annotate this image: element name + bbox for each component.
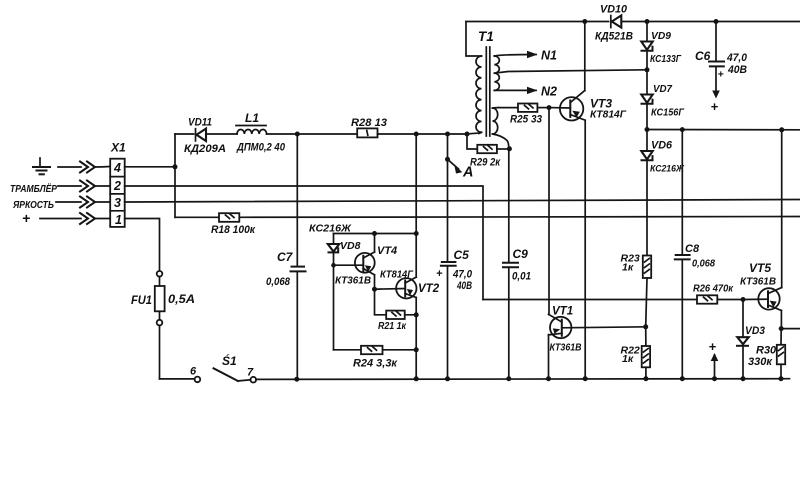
resistor R26 <box>697 295 743 303</box>
svg-text:С9: С9 <box>513 247 529 261</box>
svg-text:R29 2к: R29 2к <box>470 157 501 169</box>
wire N2 arrow <box>494 87 537 94</box>
wire main line seg <box>416 133 447 135</box>
node main-C5 junction <box>445 132 450 137</box>
svg-text:КТ361В: КТ361В <box>335 276 371 287</box>
svg-text:+: + <box>711 99 719 114</box>
wire y130 line <box>647 129 800 131</box>
fuse FU1 <box>155 271 165 379</box>
node rail-C8 <box>680 376 685 381</box>
wire main line seg2 <box>448 133 468 135</box>
node VD7-rightline <box>645 127 650 132</box>
wire N-tap long line <box>494 70 647 73</box>
wire input pin2 <box>58 185 110 187</box>
zener VD6 <box>641 130 652 256</box>
svg-text:+: + <box>436 268 443 280</box>
wire input pin3 <box>56 201 110 203</box>
svg-text:+: + <box>718 69 724 81</box>
svg-text:6: 6 <box>190 366 197 378</box>
input arrow chevrons pin1 <box>80 213 95 224</box>
wire vertical pin4 riser <box>174 134 176 217</box>
transformer T1 core <box>486 47 490 136</box>
node rail-VD3 <box>741 376 746 381</box>
node rail-C5 <box>445 376 450 381</box>
svg-text:+: + <box>22 210 30 226</box>
transformer T1 primary winding <box>466 22 482 134</box>
svg-text:Х1: Х1 <box>110 141 126 155</box>
svg-text:С7: С7 <box>277 250 294 264</box>
svg-text:КТ361В: КТ361В <box>550 342 582 354</box>
node VD8-VT4base <box>331 263 336 268</box>
svg-text:ЯРКОСТЬ: ЯРКОСТЬ <box>12 199 54 211</box>
svg-text:С6: С6 <box>695 49 711 63</box>
svg-text:КС216Ж: КС216Ж <box>309 224 352 235</box>
svg-text:КТ814Г: КТ814Г <box>380 269 413 281</box>
wire pin1 to fuse <box>125 219 160 272</box>
diode VD10 <box>611 15 622 27</box>
connector X1 <box>110 159 125 227</box>
transistor VT1 <box>549 314 646 378</box>
svg-text:0,068: 0,068 <box>692 258 715 270</box>
node rail-VT1emit <box>546 376 551 381</box>
node main-R29 junction <box>465 132 470 137</box>
node R25-VT3base <box>547 105 552 110</box>
wire N1 arrow <box>494 51 537 58</box>
svg-text:R28 13: R28 13 <box>351 117 387 129</box>
node R26-VD3-VT5 <box>741 297 746 302</box>
capacitor C9 <box>503 149 518 379</box>
node rail-C9 <box>506 376 511 381</box>
diode VD11 <box>196 129 238 141</box>
svg-text:R24 3,3к: R24 3,3к <box>353 358 398 370</box>
node toprail-VT3col <box>582 19 587 24</box>
transformer T1 lower secondary winding <box>493 108 509 149</box>
resistor R29 <box>477 145 509 153</box>
zener VD8 <box>328 234 339 350</box>
node VT1base-R22R23 <box>643 324 648 329</box>
resistor R21 <box>386 311 405 319</box>
svg-text:0,068: 0,068 <box>266 276 291 288</box>
input arrow chevrons pin2 <box>80 181 95 192</box>
svg-text:КД209А: КД209А <box>184 143 226 155</box>
wire bus C (R18 line) <box>175 216 800 219</box>
wire input pin1 <box>40 218 110 220</box>
svg-text:КС156Г: КС156Г <box>651 108 685 119</box>
wire bus A (pin2) <box>125 186 483 300</box>
svg-text:R21 1к: R21 1к <box>378 320 407 332</box>
svg-text:КД521В: КД521В <box>595 31 633 43</box>
wire bottom rail <box>256 378 789 381</box>
wire x416 vertical upper <box>415 134 417 277</box>
zener VD7 <box>641 70 652 130</box>
wire input pin4 <box>58 166 110 169</box>
node rail-VT3emit <box>583 376 588 381</box>
svg-text:VD11: VD11 <box>188 117 212 129</box>
node VT5emit-out <box>779 326 784 331</box>
wire VT3 emitter drop <box>584 120 586 379</box>
node rail-C7 <box>294 377 299 382</box>
wire VT1 collector riser <box>548 108 550 315</box>
capacitor C6 <box>709 22 724 99</box>
svg-text:ТРАМБЛЁР: ТРАМБЛЁР <box>10 182 58 195</box>
svg-text:47,0: 47,0 <box>452 269 473 281</box>
inductor L1 <box>236 126 297 135</box>
svg-text:Ś1: Ś1 <box>222 353 237 368</box>
svg-text:КТ361В: КТ361В <box>740 276 776 288</box>
node R21-x416 <box>414 312 419 317</box>
svg-text:VD6: VD6 <box>651 140 673 152</box>
node A junction <box>445 157 450 162</box>
svg-text:КС133Г: КС133Г <box>650 54 682 65</box>
node rail-terminal <box>712 376 717 381</box>
node toprail-VD9 <box>645 19 650 24</box>
svg-text:VT2: VT2 <box>418 283 440 295</box>
svg-text:40В: 40В <box>727 64 747 76</box>
svg-text:N2: N2 <box>541 85 557 99</box>
wire main line to primary <box>467 133 479 134</box>
wire emitter out line <box>781 328 800 330</box>
svg-text:VT1: VT1 <box>552 306 573 318</box>
resistor R18 <box>219 213 239 222</box>
transistor VT5 <box>743 288 782 311</box>
resistor R30 <box>777 329 785 379</box>
svg-text:330к: 330к <box>748 356 773 368</box>
wire bottom rail left <box>160 378 195 380</box>
node main-VT2col junction <box>414 132 419 137</box>
capacitor C8 <box>675 130 690 379</box>
svg-text:С5: С5 <box>454 248 470 262</box>
svg-text:FU1: FU1 <box>131 295 152 307</box>
node main-C7 junction <box>295 132 300 137</box>
wire R29 left leg <box>467 134 477 149</box>
wire VT5 emitter drop <box>780 311 782 329</box>
svg-text:4: 4 <box>113 161 121 175</box>
resistor R22 <box>642 327 650 379</box>
svg-text:VD3: VD3 <box>745 325 765 337</box>
svg-text:0,5А: 0,5А <box>168 294 195 306</box>
node VD9-Ntap <box>645 67 650 72</box>
input arrow chevrons pin3 <box>80 197 95 208</box>
svg-text:КТ814Г: КТ814Г <box>590 109 627 121</box>
svg-text:VD7: VD7 <box>653 83 673 95</box>
node R29-N2 junction <box>507 146 512 151</box>
switch S1 <box>195 368 257 382</box>
svg-text:7: 7 <box>247 367 254 379</box>
node VT4emit-VT2base <box>372 287 377 292</box>
svg-text:L1: L1 <box>245 111 259 125</box>
wire VD8 top line <box>334 233 417 235</box>
node rail-x416 <box>414 376 419 381</box>
svg-text:40В: 40В <box>456 280 472 292</box>
svg-text:ДПМ0,2 40: ДПМ0,2 40 <box>236 142 285 154</box>
wire main line left <box>175 133 194 135</box>
svg-text:R30: R30 <box>756 345 777 357</box>
svg-text:3: 3 <box>114 196 121 210</box>
zener VD9 <box>641 22 652 70</box>
transformer T1 secondary N1-N2 winding <box>494 56 499 90</box>
svg-text:47,0: 47,0 <box>726 52 748 64</box>
capacitor C7 <box>291 134 306 379</box>
svg-text:КС216Ж: КС216Ж <box>650 164 685 175</box>
svg-text:VT4: VT4 <box>377 245 397 257</box>
wire y300 line (bus A continuation) <box>483 299 697 301</box>
svg-text:Т1: Т1 <box>478 29 494 44</box>
svg-text:R26 470к: R26 470к <box>693 283 734 295</box>
wire x416 vertical lower <box>415 298 417 379</box>
svg-text:0,01: 0,01 <box>512 271 531 283</box>
ground <box>33 158 50 174</box>
svg-text:1к: 1к <box>622 262 634 274</box>
wire R24 row <box>334 349 417 351</box>
svg-text:С8: С8 <box>685 243 700 255</box>
transistor VT3 <box>549 91 585 121</box>
resistor R28 <box>357 128 416 137</box>
transistor VT4 <box>334 234 375 290</box>
capacitor C5 <box>441 134 456 379</box>
svg-text:VD10: VD10 <box>600 4 628 16</box>
svg-text:VT5: VT5 <box>749 261 771 275</box>
svg-text:2: 2 <box>113 179 121 193</box>
node A arrow <box>448 159 459 169</box>
transistor VT2 <box>375 277 417 298</box>
resistor R24 <box>361 346 383 354</box>
wire VT5 collector riser <box>781 130 783 288</box>
node rail-R30 <box>779 376 784 381</box>
wire pin4 to junction <box>125 166 175 168</box>
resistor R23 <box>643 256 651 327</box>
svg-text:VD8: VD8 <box>340 240 361 252</box>
node y130-C8 <box>680 127 685 132</box>
wire VT3 collector riser <box>584 22 586 91</box>
wire top rail <box>466 21 800 23</box>
node VD8line-x416 <box>414 231 419 236</box>
svg-text:VD9: VD9 <box>651 30 671 42</box>
diode VD3 <box>737 300 749 379</box>
node y130-VT5col <box>779 127 784 132</box>
svg-text:R18 100к: R18 100к <box>211 224 256 236</box>
svg-text:R25 33: R25 33 <box>510 114 542 126</box>
node toprail-C6 <box>714 19 719 24</box>
resistor R25 <box>499 104 550 112</box>
node VD8line-VT4col <box>372 231 377 236</box>
wire main line to R28 <box>297 133 357 135</box>
node R24-x416 <box>414 347 419 352</box>
svg-text:1: 1 <box>115 213 122 227</box>
svg-text:N1: N1 <box>541 49 557 63</box>
node pin4 junction <box>173 164 178 169</box>
svg-text:1к: 1к <box>622 353 634 365</box>
wire bus B (pin3) <box>125 200 800 203</box>
node rail-R22 <box>643 376 648 381</box>
wire R21 row <box>375 289 417 315</box>
input arrow chevrons pin4 <box>80 162 95 173</box>
svg-text:+: + <box>709 339 717 354</box>
terminal arrow up <box>711 353 719 379</box>
